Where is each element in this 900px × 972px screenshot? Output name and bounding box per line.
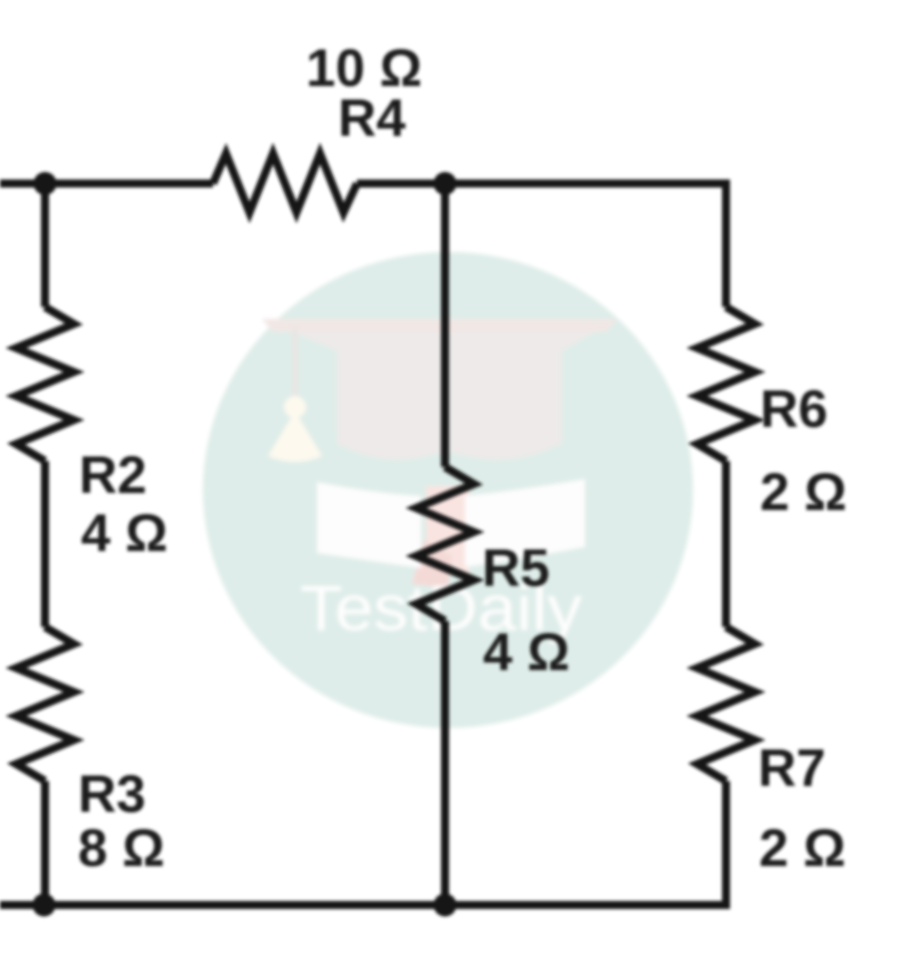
wire: right branch bottom and bottom rail (0, 781, 726, 905)
svg-text:2 Ω: 2 Ω (759, 819, 846, 878)
resistor R6 (697, 307, 755, 461)
node: top-left junction (34, 172, 57, 195)
svg-text:2 Ω: 2 Ω (760, 463, 847, 522)
wire: right branch between R6 and R7 (722, 461, 730, 627)
svg-text:R7: R7 (758, 739, 826, 798)
svg-text:4 Ω: 4 Ω (81, 504, 168, 563)
wire: left branch upper (41, 184, 49, 308)
tassel cone (268, 411, 322, 462)
bookmark ribbon lower fold (412, 540, 452, 588)
svg-text:8 Ω: 8 Ω (78, 819, 165, 878)
wire: top rail left segment (0, 180, 213, 188)
resistor R3 (16, 627, 74, 781)
tassel cord (292, 327, 298, 402)
svg-text:R6: R6 (760, 380, 828, 439)
svg-text:R5: R5 (482, 539, 550, 598)
wire: middle branch upper (441, 184, 449, 468)
cap band pink tint (262, 319, 617, 332)
cap board and crown (262, 319, 617, 445)
node: bottom-middle junction (434, 894, 457, 917)
circuit drawing (0, 154, 755, 917)
svg-text:R4: R4 (338, 89, 406, 148)
bookmark ribbon (426, 486, 469, 588)
wire: left branch bottom (41, 781, 49, 905)
wire: top rail right segment and right branch down to R6 (357, 184, 726, 308)
wire: left branch between R2 and R3 (41, 461, 49, 627)
book silhouette under cap (337, 443, 562, 460)
watermark logo (TestDaily) (203, 252, 693, 728)
resistor R4 (213, 154, 357, 213)
wire: middle branch lower (441, 621, 449, 905)
resistor R7 (697, 627, 755, 781)
book right page (465, 479, 585, 567)
svg-text:R3: R3 (78, 765, 146, 824)
tassel ball (284, 396, 306, 418)
svg-text:4 Ω: 4 Ω (483, 623, 570, 682)
resistor R5 (416, 467, 474, 621)
book left page (317, 482, 421, 568)
svg-text:R2: R2 (79, 446, 147, 505)
node: bottom-left junction (33, 894, 56, 917)
node: top-middle junction (434, 172, 457, 195)
resistor R2 (16, 307, 74, 461)
